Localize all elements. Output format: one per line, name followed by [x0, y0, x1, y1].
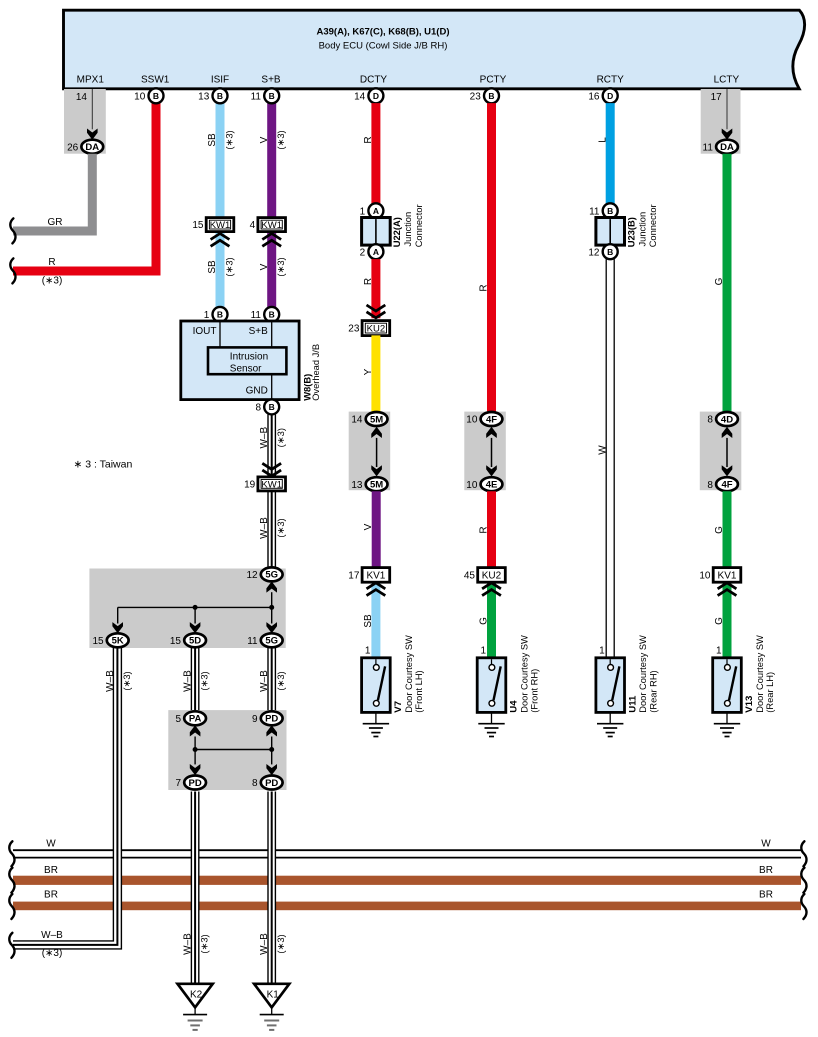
svg-text:V: V [259, 263, 270, 270]
svg-text:13: 13 [351, 480, 363, 491]
svg-text:4: 4 [250, 220, 256, 231]
svg-text:∗ 3 : Taiwan: ∗ 3 : Taiwan [74, 459, 133, 471]
svg-text:(∗3): (∗3) [42, 948, 63, 959]
svg-text:W: W [761, 839, 771, 850]
svg-text:15: 15 [192, 220, 204, 231]
svg-text:15: 15 [92, 636, 104, 647]
svg-text:23: 23 [470, 91, 482, 102]
svg-text:W–B: W–B [259, 517, 270, 539]
svg-text:SSW1: SSW1 [141, 74, 170, 85]
svg-text:17: 17 [348, 571, 360, 582]
svg-text:Y: Y [363, 368, 374, 375]
svg-text:5: 5 [175, 714, 181, 725]
svg-text:1: 1 [360, 206, 366, 217]
svg-text:8: 8 [707, 480, 713, 491]
svg-text:BR: BR [44, 890, 58, 901]
svg-text:(∗3): (∗3) [275, 518, 286, 537]
svg-text:B: B [153, 91, 159, 101]
svg-text:W: W [598, 445, 609, 455]
svg-text:(∗3): (∗3) [275, 257, 286, 276]
svg-text:GR: GR [48, 217, 63, 228]
svg-text:4F: 4F [721, 480, 732, 491]
svg-text:16: 16 [588, 91, 600, 102]
svg-text:5D: 5D [189, 636, 201, 647]
svg-text:U4: U4 [509, 700, 520, 713]
svg-text:1: 1 [204, 310, 210, 321]
svg-text:KV1: KV1 [718, 571, 737, 582]
svg-text:(∗3): (∗3) [275, 130, 286, 149]
svg-text:12: 12 [588, 247, 600, 258]
svg-text:Door Courtesy SW: Door Courtesy SW [404, 635, 414, 713]
svg-text:SB: SB [207, 260, 218, 274]
svg-text:R: R [479, 284, 490, 291]
svg-text:B: B [217, 310, 223, 320]
svg-text:23: 23 [348, 324, 360, 335]
svg-text:13: 13 [198, 91, 210, 102]
svg-text:BR: BR [759, 865, 773, 876]
svg-text:D: D [373, 91, 379, 101]
svg-text:26: 26 [67, 142, 79, 153]
svg-text:15: 15 [170, 636, 182, 647]
svg-text:KU2: KU2 [367, 324, 385, 335]
svg-text:14: 14 [351, 415, 363, 426]
svg-text:S+B: S+B [249, 326, 269, 337]
svg-text:K1: K1 [267, 990, 280, 1001]
svg-text:45: 45 [464, 571, 476, 582]
svg-text:(Rear RH): (Rear RH) [648, 670, 658, 712]
svg-text:V13: V13 [744, 696, 755, 713]
svg-text:SB: SB [363, 614, 374, 628]
svg-text:5M: 5M [370, 480, 383, 491]
svg-text:PD: PD [188, 778, 201, 789]
svg-text:W–B: W–B [41, 930, 63, 941]
svg-text:4E: 4E [486, 480, 498, 491]
svg-text:KW1: KW1 [261, 220, 282, 231]
svg-text:B: B [269, 310, 275, 320]
svg-text:Junction: Junction [637, 212, 647, 247]
svg-text:9: 9 [252, 714, 258, 725]
svg-text:Door Courtesy SW: Door Courtesy SW [755, 635, 765, 713]
svg-text:IOUT: IOUT [193, 326, 217, 337]
svg-text:R: R [363, 278, 374, 285]
svg-text:7: 7 [175, 778, 181, 789]
svg-text:R: R [48, 257, 55, 268]
svg-text:A39(A), K67(C), K68(B), U1(D): A39(A), K67(C), K68(B), U1(D) [316, 27, 449, 38]
svg-text:(∗3): (∗3) [275, 671, 286, 690]
svg-text:KW1: KW1 [261, 479, 282, 490]
svg-text:(∗3): (∗3) [121, 671, 132, 690]
svg-text:B: B [488, 91, 494, 101]
svg-text:Door Courtesy SW: Door Courtesy SW [638, 635, 648, 713]
svg-text:U22(A): U22(A) [391, 217, 402, 247]
svg-text:W–B: W–B [182, 933, 193, 955]
svg-text:(∗3): (∗3) [275, 428, 286, 447]
svg-text:W: W [46, 839, 56, 850]
svg-text:11: 11 [251, 310, 262, 321]
svg-text:(Front LH): (Front LH) [414, 670, 424, 712]
svg-text:PD: PD [265, 778, 278, 789]
svg-text:(Front RH): (Front RH) [530, 669, 540, 713]
svg-text:11: 11 [703, 142, 714, 153]
svg-text:MPX1: MPX1 [77, 74, 105, 85]
svg-text:4F: 4F [486, 414, 497, 425]
svg-text:GND: GND [246, 386, 268, 397]
svg-text:5G: 5G [265, 636, 278, 647]
svg-text:BR: BR [44, 865, 58, 876]
svg-text:B: B [269, 91, 275, 101]
svg-text:(∗3): (∗3) [198, 671, 209, 690]
svg-text:B: B [269, 402, 275, 412]
svg-text:LCTY: LCTY [714, 74, 740, 85]
svg-text:A: A [373, 206, 379, 216]
svg-text:Sensor: Sensor [230, 363, 262, 374]
svg-text:4D: 4D [721, 414, 733, 425]
svg-text:11: 11 [251, 91, 262, 102]
svg-text:14: 14 [354, 91, 366, 102]
svg-text:1: 1 [365, 646, 371, 657]
svg-text:S+B: S+B [261, 74, 281, 85]
svg-text:KV1: KV1 [366, 571, 385, 582]
svg-text:5G: 5G [265, 570, 278, 581]
svg-text:19: 19 [244, 480, 256, 491]
svg-text:Connector: Connector [648, 204, 658, 247]
svg-text:Junction: Junction [403, 212, 413, 247]
svg-text:BR: BR [759, 890, 773, 901]
svg-text:10: 10 [699, 571, 711, 582]
svg-text:14: 14 [76, 92, 88, 103]
svg-text:8: 8 [255, 403, 261, 414]
svg-text:V7: V7 [393, 701, 404, 713]
svg-text:A: A [373, 247, 379, 257]
svg-text:K2: K2 [190, 990, 203, 1001]
svg-text:11: 11 [589, 206, 600, 217]
svg-text:KW1: KW1 [210, 220, 231, 231]
svg-text:8: 8 [707, 415, 713, 426]
svg-text:1: 1 [599, 646, 605, 657]
svg-text:R: R [479, 526, 490, 533]
svg-text:G: G [714, 617, 725, 625]
svg-text:(∗3): (∗3) [223, 257, 234, 276]
svg-text:1: 1 [716, 646, 722, 657]
svg-text:W–B: W–B [105, 670, 116, 692]
svg-text:5M: 5M [370, 414, 383, 425]
svg-text:(Rear LH): (Rear LH) [765, 672, 775, 713]
svg-text:DA: DA [85, 142, 99, 153]
svg-text:PD: PD [265, 714, 278, 725]
svg-text:SB: SB [207, 133, 218, 147]
svg-text:Door Courtesy SW: Door Courtesy SW [519, 635, 529, 713]
svg-text:Body ECU (Cowl Side J/B RH): Body ECU (Cowl Side J/B RH) [319, 40, 448, 51]
svg-text:10: 10 [466, 415, 478, 426]
svg-text:G: G [714, 526, 725, 534]
svg-text:Connector: Connector [414, 204, 424, 247]
svg-text:(∗3): (∗3) [198, 934, 209, 953]
svg-text:PCTY: PCTY [480, 74, 507, 85]
svg-text:Overhead J/B: Overhead J/B [311, 344, 321, 401]
svg-text:U23(B): U23(B) [625, 217, 636, 247]
svg-text:(∗3): (∗3) [275, 934, 286, 953]
svg-text:11: 11 [247, 636, 258, 647]
svg-text:RCTY: RCTY [597, 74, 625, 85]
svg-text:G: G [479, 617, 490, 625]
svg-text:KU2: KU2 [482, 571, 502, 582]
svg-text:Intrusion: Intrusion [230, 351, 268, 362]
svg-text:R: R [363, 136, 374, 143]
svg-text:B: B [607, 247, 613, 257]
svg-text:ISIF: ISIF [211, 74, 229, 85]
svg-text:10: 10 [466, 480, 478, 491]
svg-text:1: 1 [480, 646, 486, 657]
svg-text:W–B: W–B [259, 933, 270, 955]
svg-text:W–B: W–B [259, 427, 270, 449]
svg-text:G: G [714, 277, 725, 285]
svg-text:DA: DA [720, 142, 734, 153]
svg-text:L: L [597, 137, 608, 143]
svg-text:17: 17 [711, 92, 723, 103]
svg-text:10: 10 [134, 91, 146, 102]
svg-text:B: B [217, 91, 223, 101]
svg-text:V: V [259, 136, 270, 143]
svg-text:(∗3): (∗3) [223, 130, 234, 149]
svg-text:2: 2 [360, 247, 366, 258]
svg-text:12: 12 [246, 570, 258, 581]
svg-text:B: B [607, 206, 613, 216]
svg-text:U11: U11 [627, 695, 638, 713]
svg-text:D: D [607, 91, 613, 101]
svg-text:(∗3): (∗3) [42, 276, 63, 287]
svg-text:V: V [363, 523, 374, 530]
svg-text:DCTY: DCTY [360, 74, 388, 85]
svg-text:PA: PA [189, 714, 202, 725]
svg-text:5K: 5K [112, 636, 124, 647]
svg-text:8: 8 [252, 778, 258, 789]
